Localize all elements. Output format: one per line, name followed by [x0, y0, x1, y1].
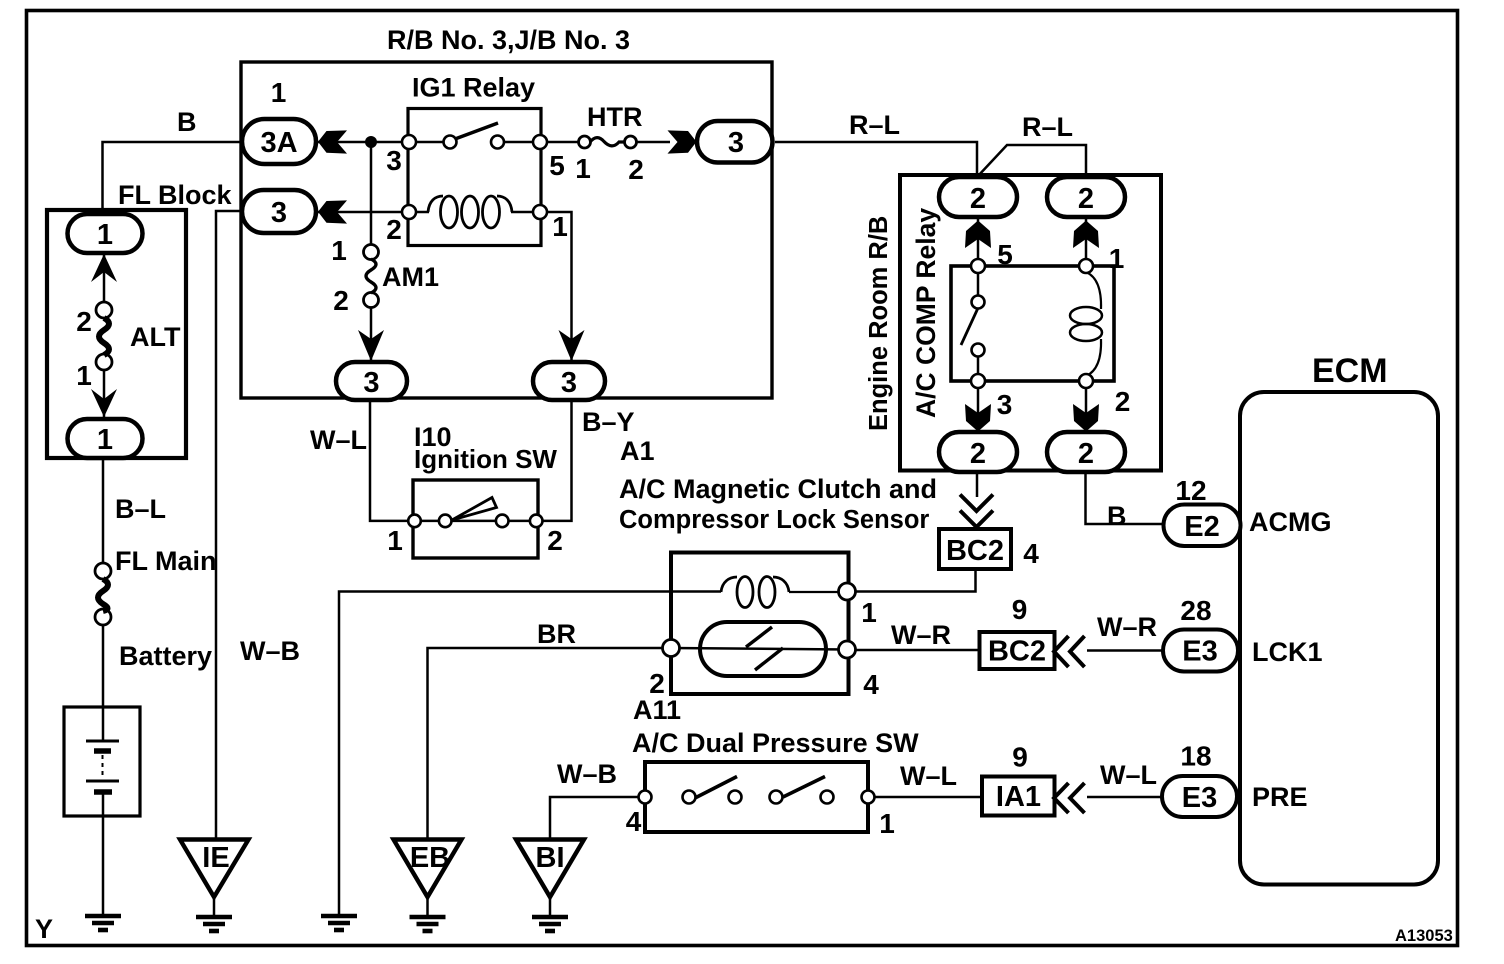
svg-text:1: 1 — [575, 153, 591, 184]
svg-text:A/C Magnetic Clutch and: A/C Magnetic Clutch and — [619, 474, 937, 504]
svg-text:4: 4 — [626, 806, 642, 837]
svg-text:1: 1 — [1109, 243, 1125, 274]
svg-text:28: 28 — [1180, 595, 1211, 626]
svg-text:R/B No. 3,J/B No. 3: R/B No. 3,J/B No. 3 — [387, 25, 630, 55]
svg-text:1: 1 — [76, 360, 92, 391]
svg-text:3: 3 — [561, 367, 577, 399]
svg-text:1: 1 — [331, 235, 347, 266]
svg-text:A13053: A13053 — [1395, 927, 1453, 945]
svg-text:Y: Y — [35, 914, 53, 944]
svg-text:ECM: ECM — [1312, 352, 1388, 390]
svg-text:1: 1 — [97, 424, 113, 456]
svg-text:B–L: B–L — [115, 494, 166, 524]
svg-text:18: 18 — [1180, 741, 1211, 772]
svg-text:3: 3 — [997, 389, 1013, 420]
svg-text:1: 1 — [387, 525, 403, 556]
svg-text:IE: IE — [202, 842, 229, 874]
svg-text:3: 3 — [271, 197, 287, 229]
svg-text:Ignition SW: Ignition SW — [414, 444, 557, 474]
svg-text:2: 2 — [333, 285, 349, 316]
svg-text:Compressor Lock Sensor: Compressor Lock Sensor — [619, 506, 929, 534]
svg-text:2: 2 — [1078, 438, 1094, 470]
svg-text:EB: EB — [410, 842, 450, 874]
svg-text:A/C COMP Relay: A/C COMP Relay — [911, 208, 941, 418]
svg-text:W–B: W–B — [557, 759, 617, 789]
svg-text:4: 4 — [1023, 538, 1039, 569]
svg-text:2: 2 — [386, 214, 402, 245]
svg-text:1: 1 — [271, 77, 287, 108]
svg-text:5: 5 — [549, 150, 565, 181]
svg-text:Battery: Battery — [119, 641, 212, 671]
svg-text:E2: E2 — [1184, 511, 1219, 543]
svg-text:1: 1 — [97, 219, 113, 251]
svg-text:FL Main: FL Main — [115, 546, 217, 576]
svg-text:BC2: BC2 — [988, 636, 1046, 668]
svg-text:W–L: W–L — [1100, 760, 1157, 790]
svg-text:3: 3 — [386, 145, 402, 176]
svg-text:BR: BR — [537, 619, 576, 649]
svg-text:4: 4 — [863, 669, 879, 700]
svg-text:LCK1: LCK1 — [1252, 637, 1323, 667]
svg-text:A11: A11 — [633, 695, 681, 725]
svg-text:9: 9 — [1012, 594, 1028, 625]
svg-text:W–L: W–L — [310, 425, 367, 455]
svg-text:5: 5 — [997, 239, 1013, 270]
svg-text:1: 1 — [879, 808, 895, 839]
svg-text:2: 2 — [76, 306, 92, 337]
svg-text:2: 2 — [970, 183, 986, 215]
svg-text:3: 3 — [728, 127, 744, 159]
svg-text:12: 12 — [1175, 475, 1206, 506]
svg-text:3A: 3A — [260, 127, 297, 159]
svg-text:BI: BI — [536, 842, 565, 874]
svg-text:3: 3 — [363, 367, 379, 399]
svg-text:ALT: ALT — [130, 322, 181, 352]
svg-text:HTR: HTR — [587, 102, 643, 132]
svg-text:A/C Dual Pressure SW: A/C Dual Pressure SW — [632, 728, 919, 758]
svg-text:2: 2 — [1078, 183, 1094, 215]
svg-text:2: 2 — [649, 668, 665, 699]
svg-text:W–R: W–R — [1097, 612, 1157, 642]
svg-text:B: B — [1107, 501, 1127, 531]
svg-text:1: 1 — [552, 211, 568, 242]
svg-text:E3: E3 — [1182, 782, 1217, 814]
svg-text:W–L: W–L — [900, 761, 957, 791]
svg-text:R–L: R–L — [1022, 112, 1073, 142]
svg-text:W–B: W–B — [240, 636, 300, 666]
svg-text:IA1: IA1 — [996, 781, 1041, 813]
svg-text:9: 9 — [1012, 742, 1028, 773]
svg-text:PRE: PRE — [1252, 782, 1308, 812]
svg-text:E3: E3 — [1182, 636, 1217, 668]
svg-text:R–L: R–L — [849, 110, 900, 140]
svg-text:IG1 Relay: IG1 Relay — [412, 73, 535, 103]
svg-text:ACMG: ACMG — [1249, 507, 1332, 537]
svg-text:Engine Room R/B: Engine Room R/B — [865, 216, 893, 431]
svg-text:2: 2 — [970, 438, 986, 470]
svg-text:2: 2 — [547, 525, 563, 556]
svg-text:BC2: BC2 — [946, 535, 1004, 567]
svg-text:B: B — [177, 107, 197, 137]
svg-text:AM1: AM1 — [382, 262, 439, 292]
svg-text:B–Y: B–Y — [582, 407, 635, 437]
svg-text:2: 2 — [628, 154, 644, 185]
svg-text:2: 2 — [1115, 386, 1131, 417]
svg-text:W–R: W–R — [891, 620, 951, 650]
svg-text:A1: A1 — [620, 436, 655, 466]
svg-text:1: 1 — [861, 597, 877, 628]
svg-text:FL Block: FL Block — [118, 180, 233, 210]
